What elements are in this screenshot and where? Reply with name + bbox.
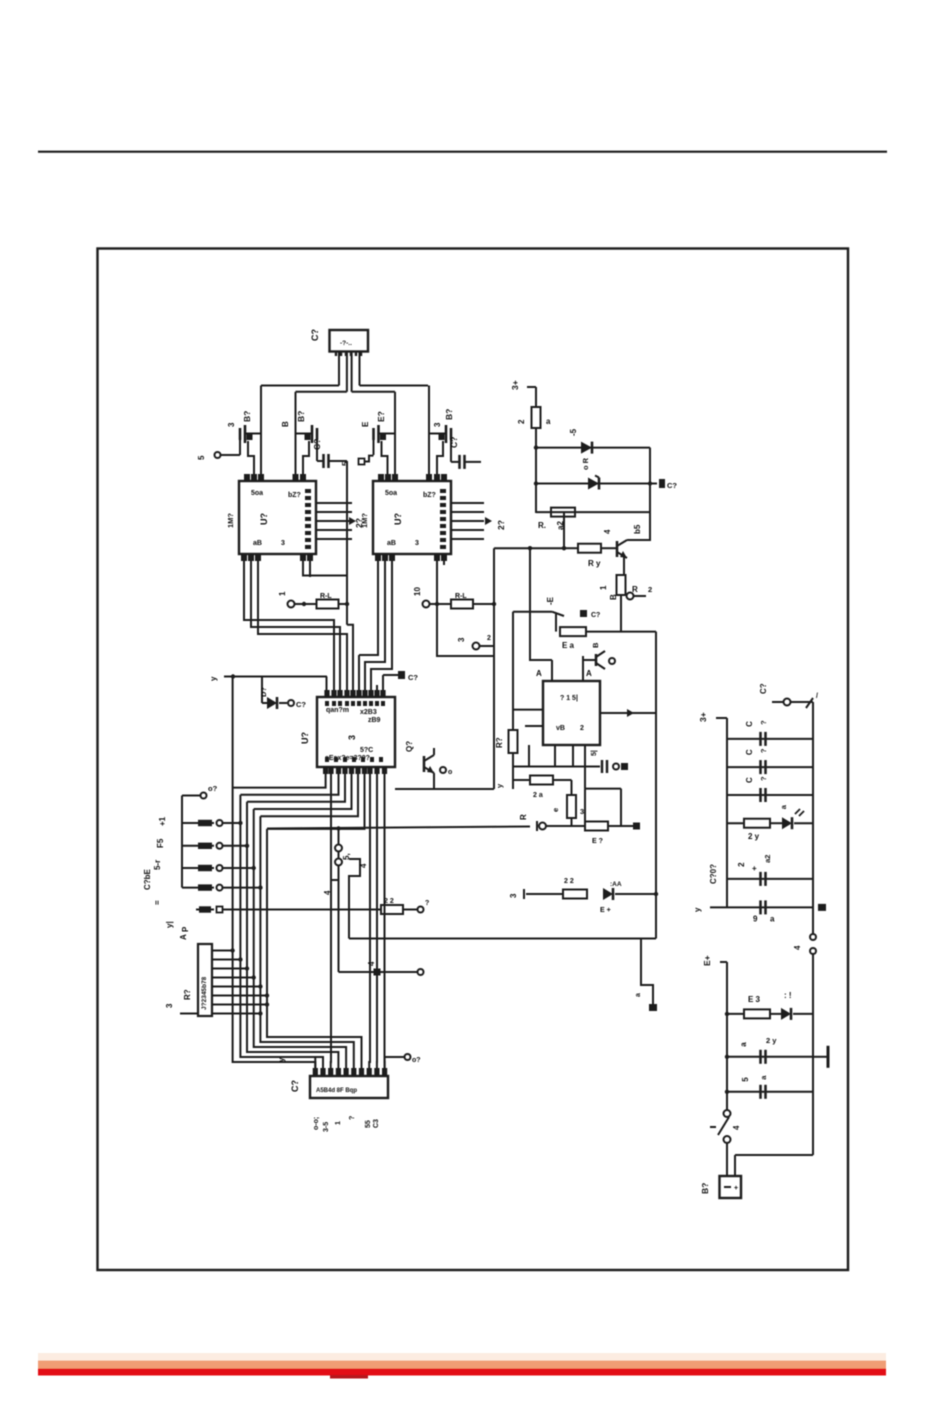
svg-text:o?: o? [208, 784, 218, 793]
svg-text:2?: 2? [496, 520, 506, 530]
svg-text:y: y [495, 783, 504, 788]
svg-text:2: 2 [648, 585, 652, 594]
svg-text:-5: -5 [569, 428, 578, 436]
svg-text:4: 4 [793, 945, 802, 950]
svg-text:A: A [586, 669, 592, 678]
svg-text:R?: R? [183, 989, 192, 1000]
svg-text:10: 10 [413, 587, 422, 596]
svg-text:+: + [734, 1185, 738, 1192]
svg-text:B: B [591, 642, 600, 648]
svg-text:C?: C? [408, 673, 418, 682]
svg-text:3: 3 [415, 540, 419, 547]
svg-text:3: 3 [165, 1003, 174, 1008]
svg-text:e: e [551, 808, 560, 812]
svg-text:E a: E a [562, 641, 575, 650]
svg-text:A5B4d 8F Bqp: A5B4d 8F Bqp [316, 1088, 357, 1094]
svg-text:2?: 2? [354, 518, 364, 528]
svg-text:C?bE: C?bE [143, 868, 152, 890]
svg-text:a2: a2 [763, 855, 772, 863]
svg-text::AA: :AA [610, 881, 622, 888]
svg-text:3+: 3+ [698, 712, 708, 722]
svg-text:R-L: R-L [455, 593, 467, 600]
svg-text:E ?: E ? [592, 838, 603, 845]
svg-text:? 1 5|: ? 1 5| [560, 695, 578, 702]
svg-text:B?: B? [700, 1183, 710, 1194]
svg-text:o-o;: o-o; [313, 1117, 320, 1130]
svg-text:2: 2 [517, 419, 526, 424]
svg-text:a: a [739, 1042, 748, 1047]
svg-text:E: E [361, 421, 370, 427]
svg-text:2: 2 [487, 635, 491, 642]
svg-text:B: B [609, 594, 618, 600]
svg-text:y|: y| [165, 921, 174, 928]
svg-text:2: 2 [737, 862, 746, 867]
svg-text:2: 2 [580, 725, 584, 732]
svg-text:-E: -E [546, 596, 555, 605]
svg-text:C?0?: C?0? [709, 864, 718, 884]
svg-text:y: y [209, 676, 218, 681]
svg-text:?: ? [349, 1116, 356, 1120]
svg-text:y: y [277, 1057, 286, 1062]
svg-text:9: 9 [753, 914, 758, 923]
svg-text:3: 3 [347, 735, 357, 740]
svg-text:a: a [546, 417, 551, 426]
svg-text:?: ? [759, 776, 768, 781]
svg-text:+: + [752, 864, 757, 873]
svg-text:C3: C3 [373, 1119, 380, 1128]
svg-text:C: C [745, 721, 754, 727]
svg-text:55: 55 [365, 1120, 372, 1128]
svg-text:A: A [536, 669, 542, 678]
svg-text:4: 4 [323, 890, 332, 895]
svg-text:qan?m: qan?m [326, 707, 349, 714]
svg-text:a: a [779, 804, 788, 809]
svg-text:C?: C? [667, 481, 677, 490]
svg-text:J?2345b78: J?2345b78 [201, 976, 208, 1010]
svg-text:3: 3 [580, 807, 584, 816]
svg-text:R-L: R-L [320, 593, 332, 600]
svg-text:B?: B? [242, 411, 252, 422]
svg-text:F5: F5 [156, 838, 165, 848]
svg-text:2 y: 2 y [766, 1036, 777, 1045]
svg-text:1: 1 [278, 591, 287, 596]
svg-text:a: a [770, 914, 775, 923]
svg-text:P: P [181, 926, 190, 932]
svg-text:aB: aB [387, 540, 396, 547]
svg-text:5oa: 5oa [251, 490, 263, 497]
svg-text:E+: E+ [702, 955, 712, 966]
svg-text:B?: B? [296, 411, 306, 422]
svg-text:-?-..: -?-.. [340, 340, 352, 347]
svg-text:3: 3 [509, 893, 518, 898]
svg-text:3-5: 3-5 [323, 1122, 330, 1132]
svg-text:5?C: 5?C [360, 747, 373, 754]
svg-text:?: ? [759, 748, 768, 753]
svg-text:5-r: 5-r [153, 860, 162, 870]
svg-text:2 y: 2 y [748, 832, 760, 841]
svg-text:1M?: 1M? [226, 513, 235, 528]
svg-text:b5: b5 [633, 524, 642, 534]
svg-text:U?: U? [300, 732, 310, 744]
svg-text:Q?: Q? [405, 741, 414, 752]
svg-text:A: A [179, 934, 188, 940]
svg-text:E +: E + [600, 907, 611, 914]
svg-text:o R: o R [581, 457, 590, 470]
svg-text:/: / [816, 693, 818, 700]
svg-text:zB9: zB9 [368, 717, 381, 724]
svg-text:5: 5 [197, 455, 206, 460]
svg-text:C?: C? [591, 612, 600, 619]
svg-text:U?: U? [393, 513, 403, 525]
svg-text:R: R [519, 814, 528, 820]
svg-text:4: 4 [732, 1125, 741, 1130]
svg-text:E?: E? [376, 411, 386, 422]
svg-text:4: 4 [603, 529, 612, 534]
svg-text:C?: C? [310, 329, 320, 341]
svg-text:C?: C? [759, 683, 768, 694]
svg-text:E 3: E 3 [748, 995, 761, 1004]
svg-text:aB: aB [253, 540, 262, 547]
svg-text:a: a [759, 1075, 768, 1080]
svg-text:3: 3 [433, 422, 442, 427]
svg-text:5|: 5| [591, 750, 598, 756]
svg-text:bZ?: bZ? [288, 492, 301, 499]
svg-text:D?: D? [259, 687, 268, 697]
svg-text:R y: R y [588, 559, 601, 568]
svg-text:5oa: 5oa [385, 490, 397, 497]
svg-text:5: 5 [741, 1077, 750, 1082]
svg-text:vB: vB [556, 725, 565, 732]
svg-text:R.: R. [538, 521, 546, 530]
svg-text:x2B3: x2B3 [360, 709, 377, 716]
svg-text:3+: 3+ [510, 380, 520, 390]
svg-text:2 2: 2 2 [384, 898, 394, 905]
svg-text:1: 1 [599, 585, 608, 590]
svg-text:C: C [745, 749, 754, 755]
svg-text:bZ?: bZ? [423, 492, 436, 499]
svg-text:a: a [635, 993, 642, 997]
svg-text:=: = [153, 900, 162, 905]
svg-text:C: C [745, 777, 754, 783]
svg-text:4: 4 [359, 863, 368, 868]
svg-text:B: B [281, 421, 290, 427]
svg-text:B?: B? [444, 409, 454, 420]
svg-text:?: ? [759, 720, 768, 725]
svg-text:1: 1 [335, 1121, 342, 1125]
svg-text:2 a: 2 a [533, 792, 543, 799]
svg-text:3: 3 [227, 422, 236, 427]
svg-text:4: 4 [367, 961, 376, 966]
svg-text:o?: o? [412, 1057, 421, 1064]
svg-text:U?: U? [259, 513, 269, 525]
svg-text:3: 3 [457, 637, 466, 642]
svg-text:: !: : ! [784, 991, 792, 1000]
svg-text:3: 3 [281, 540, 285, 547]
svg-text:C?: C? [449, 437, 459, 448]
svg-text:o: o [448, 769, 452, 776]
svg-text:C?: C? [296, 700, 306, 709]
svg-text:?: ? [425, 900, 429, 907]
svg-text:y: y [693, 907, 702, 912]
svg-text:C?: C? [312, 439, 322, 450]
svg-text:2 2: 2 2 [564, 878, 574, 885]
svg-text:C?: C? [290, 1080, 300, 1092]
svg-text:R?: R? [495, 737, 504, 748]
svg-text:+1: +1 [158, 816, 167, 826]
